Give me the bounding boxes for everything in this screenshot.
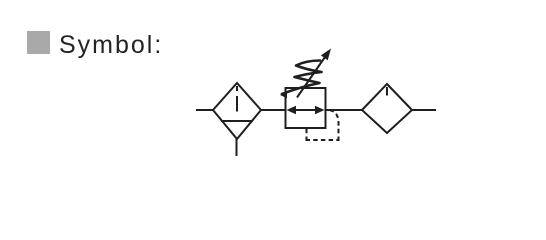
wire: filter to regulator [261, 109, 286, 111]
regulator pilot dashed line (up to outlet) [331, 111, 339, 142]
filter water-trap chord [221, 120, 253, 122]
wire: inlet (left) [196, 109, 214, 111]
regulator flow arrowhead left [287, 106, 297, 114]
regulator adjustment arrowhead [321, 49, 331, 61]
lubricator L1 (diamond) [362, 84, 412, 133]
gray bullet square [27, 31, 50, 54]
filter F1 (diamond) [213, 83, 261, 139]
regulator flow arrow shaft [293, 109, 318, 111]
regulator R1 (body) [286, 88, 326, 128]
regulator pilot stub [306, 128, 308, 133]
regulator pilot dashed line (across) [306, 139, 340, 141]
filter drain line [236, 139, 238, 156]
regulator flow arrowhead right [315, 106, 325, 114]
regulator pilot dashed line (down) [306, 132, 308, 142]
regulator adjustment arrow shaft [297, 57, 325, 98]
regulator spring [282, 61, 322, 95]
wire: outlet (right) [412, 109, 436, 111]
filter element line [236, 96, 238, 112]
lubricator drip stub [386, 87, 388, 96]
filter top stub [236, 86, 238, 91]
heading text "Symbol:" [59, 33, 163, 58]
wire: regulator to lubricator [326, 109, 363, 111]
regulator spring end loop [280, 92, 287, 98]
